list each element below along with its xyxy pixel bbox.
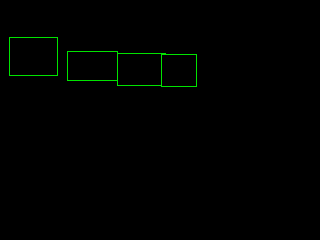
window outline 3 (partially behind box 4) — [117, 53, 166, 86]
window outline 1 (top-left box) — [9, 37, 58, 76]
window outline 2 — [67, 51, 118, 81]
window outline 4 (topmost, right) — [161, 54, 197, 87]
